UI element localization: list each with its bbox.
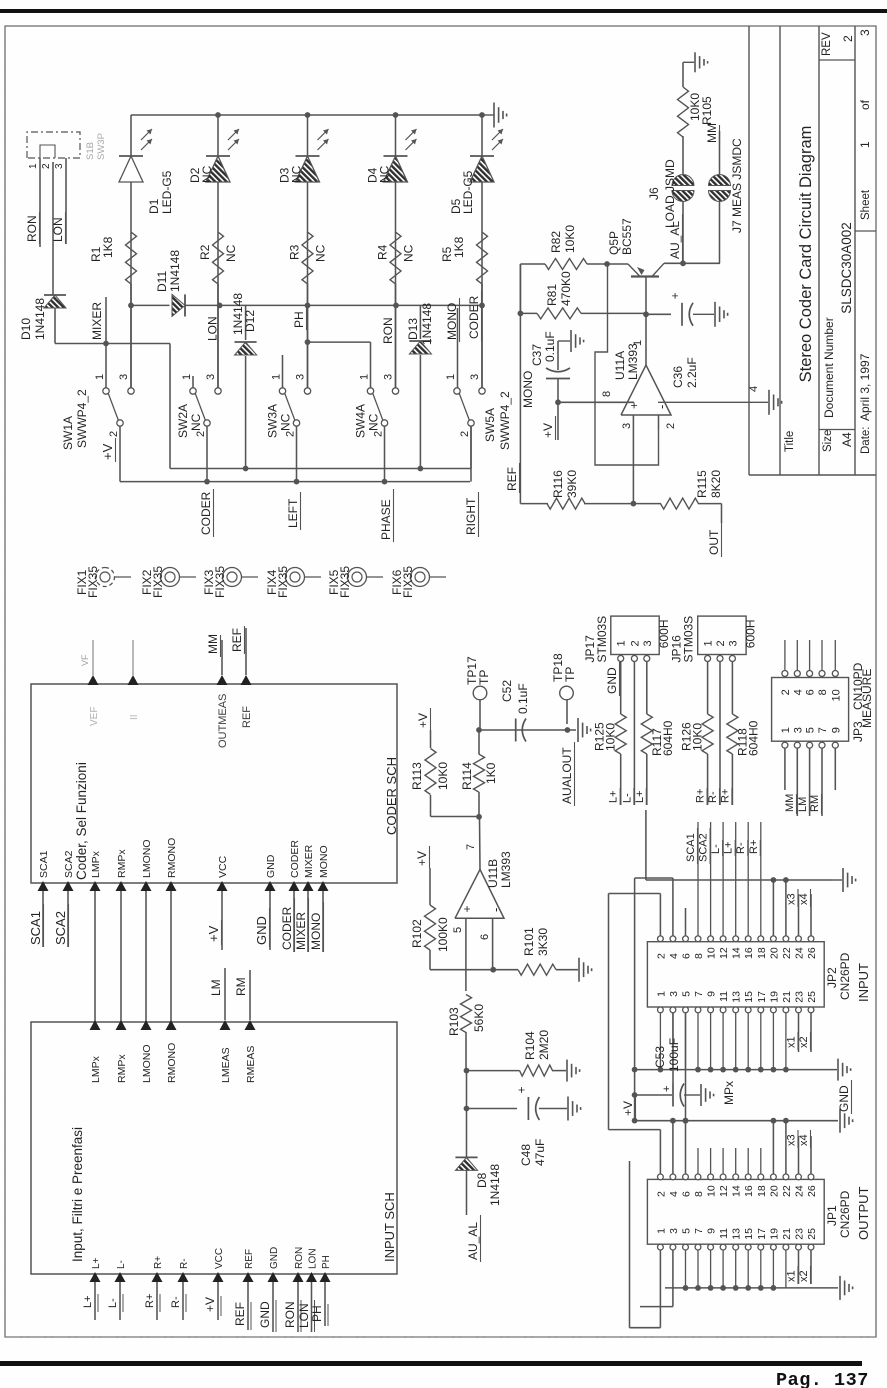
wire MIXER: [105, 297, 107, 388]
net label +V riser: [621, 1096, 636, 1118]
CODER SCH pin MONO: [318, 845, 331, 891]
label SW3A: [266, 404, 293, 438]
wire VCC stub: [221, 891, 223, 950]
svg-text:RMONO: RMONO: [166, 1043, 178, 1083]
svg-text:C36: C36: [671, 366, 685, 388]
svg-text:604H0: 604H0: [661, 720, 675, 756]
net label R+: [695, 788, 708, 805]
svg-text:NC: NC: [367, 413, 381, 431]
svg-text:LMEAS: LMEAS: [220, 1047, 232, 1083]
svg-text:Coder, Sel Funzioni: Coder, Sel Funzioni: [74, 762, 89, 880]
svg-text:6: 6: [681, 1191, 693, 1197]
svg-text:7: 7: [693, 991, 705, 997]
svg-text:1: 1: [858, 141, 872, 148]
resistor R117 604H0 on JP17 pin3: [641, 662, 652, 806]
label SW4A: [354, 404, 381, 438]
svg-text:R113: R113: [410, 762, 424, 790]
CODER SCH pin LMPx: [90, 850, 103, 891]
svg-text:2: 2: [629, 640, 641, 646]
R105 ground: [683, 52, 708, 72]
capacitor C37 0.1uF: [546, 341, 570, 402]
wire OUT: [721, 504, 723, 523]
svg-text:100K0: 100K0: [436, 917, 450, 952]
SW5A pin2 wire: [470, 426, 472, 481]
svg-text:2: 2: [195, 431, 207, 437]
JP1 pin 11: [718, 1228, 730, 1250]
net label L-: [621, 788, 634, 805]
svg-text:AU_AL: AU_AL: [466, 1222, 480, 1260]
op-amp U11B LM393: [455, 851, 513, 918]
label R114: [460, 762, 498, 790]
junction dots on LED rail: [215, 112, 485, 118]
svg-text:x1: x1: [786, 1270, 798, 1282]
junction dot pin6 node: [490, 967, 496, 973]
JP1 pin 5: [681, 1228, 693, 1250]
svg-text:SLSDC30A002: SLSDC30A002: [839, 222, 854, 314]
JP1 left bus: [665, 1250, 838, 1288]
svg-text:3: 3: [469, 374, 481, 380]
svg-text:RIGHT: RIGHT: [464, 497, 478, 535]
net label LM JP3: [797, 794, 810, 814]
INPUT SCH pin LMPx: [90, 1020, 103, 1083]
JP2 pin 12: [718, 936, 730, 959]
svg-text:2: 2: [285, 431, 297, 437]
INPUT SCH pin RMONO: [166, 1020, 179, 1083]
resistor R82 10K0: [520, 259, 607, 270]
svg-text:470K0: 470K0: [559, 271, 573, 306]
resistor R113 10K0: [425, 730, 436, 817]
label R115: [695, 470, 723, 498]
svg-text:17: 17: [756, 991, 768, 1003]
net label GND: [254, 908, 270, 947]
svg-text:LM393: LM393: [626, 343, 640, 380]
svg-text:4: 4: [748, 386, 760, 392]
+V dot for U11A pin8: [555, 399, 561, 405]
svg-text:FIX35: FIX35: [338, 566, 352, 598]
JP2 x1 x2 stubs: [799, 1013, 812, 1052]
svg-text:NC: NC: [279, 413, 293, 431]
svg-text:19: 19: [768, 1228, 780, 1240]
net label LON at J-box pin3: [51, 212, 66, 244]
JP2 bus ground: [833, 868, 856, 892]
JP1 pin 3: [668, 1228, 680, 1250]
wire RMEAS with RM label: [234, 970, 250, 1020]
net label RON on row4: [381, 317, 395, 344]
net label R+ JP2: [748, 840, 761, 856]
U11B pin6 wire: [479, 918, 493, 970]
JP2 pin 25: [806, 991, 818, 1013]
svg-text:REF: REF: [233, 1302, 247, 1326]
svg-text:SCA2: SCA2: [63, 850, 75, 878]
JP3 right wire 6: [809, 640, 811, 670]
svg-text:JP2: JP2: [825, 967, 839, 988]
net label R-: [707, 788, 720, 805]
svg-text:2: 2: [655, 1191, 667, 1197]
CODER SCH pin RMPx: [116, 849, 129, 891]
svg-text:VCC: VCC: [217, 855, 229, 878]
JP1 pin 21: [781, 1228, 793, 1250]
title block: schematic title: [797, 126, 815, 383]
SW3A pin numbers: [271, 374, 307, 437]
svg-text:NC: NC: [290, 165, 304, 183]
resistor R104 2M20: [467, 1065, 567, 1076]
junction dot R104 node: [464, 1068, 470, 1074]
svg-text:x3: x3: [786, 893, 798, 905]
CODER SCH pin CODER: [289, 840, 302, 891]
JP2 pin 22: [781, 936, 793, 959]
svg-text:GND: GND: [837, 1085, 851, 1112]
net label L+: [634, 788, 647, 805]
svg-text:3: 3: [668, 1228, 680, 1234]
JP1 right bus ground with GND label: [837, 1080, 853, 1133]
svg-text:FIX35: FIX35: [401, 566, 415, 598]
capacitor C52 0.1uF: [516, 719, 526, 742]
R113 left elbow: [431, 816, 480, 818]
net label GND JP17: [605, 662, 620, 696]
switch SW4A NC: [367, 388, 398, 426]
JP1 right bus: [635, 1120, 838, 1122]
JP2 pin 24: [794, 936, 806, 959]
svg-text:17: 17: [756, 1228, 768, 1240]
wire GND stub: [269, 891, 271, 950]
net label +V at switches: [100, 438, 116, 462]
svg-text:RON: RON: [381, 317, 395, 344]
svg-text:LED-G5: LED-G5: [160, 170, 174, 214]
svg-text:1: 1: [655, 1228, 667, 1234]
svg-text:R115: R115: [695, 470, 709, 498]
INPUT SCH pin L-: [115, 1260, 128, 1282]
svg-text:S1B: S1B: [85, 142, 96, 160]
CODER SCH pin SCA1: [38, 850, 51, 891]
svg-text:1K8: 1K8: [101, 236, 115, 258]
wire L- stub: [107, 1282, 123, 1320]
svg-text:1N4148: 1N4148: [33, 298, 47, 340]
svg-text:+V: +V: [415, 851, 429, 866]
J-box pin numbers: [28, 163, 65, 169]
resistor R105 10K0: [678, 62, 689, 137]
junction dots JP1 left bus: [683, 1285, 777, 1291]
svg-text:April 3, 1997: April 3, 1997: [858, 353, 872, 421]
svg-text:25: 25: [806, 991, 818, 1003]
svg-text:STM03S: STM03S: [595, 616, 609, 663]
JP1 pin 7: [693, 1228, 705, 1250]
svg-text:OUTMEAS: OUTMEAS: [217, 694, 229, 748]
svg-text:VCC: VCC: [214, 1248, 225, 1269]
SW4A pin numbers: [359, 374, 395, 437]
svg-text:TP: TP: [563, 667, 577, 682]
svg-text:+: +: [668, 292, 682, 299]
svg-text:SW5A: SW5A: [483, 408, 497, 442]
svg-text:R+: R+: [153, 1256, 164, 1269]
C53/MPx ground: [701, 1081, 736, 1106]
page top rule: [0, 9, 887, 13]
wire to C48: [466, 1071, 468, 1109]
test point TP18: [551, 653, 577, 724]
net label MM JP3: [784, 794, 797, 814]
svg-text:SW4A: SW4A: [354, 404, 368, 438]
svg-text:R104: R104: [523, 1031, 537, 1060]
label R2: [198, 244, 238, 262]
JP1 pin 18: [756, 1174, 768, 1197]
resistor R126 10K0 on JP16 pin1: [702, 662, 713, 806]
net label x3 JP1: [786, 1130, 799, 1148]
net label x1 JP1: [786, 1266, 799, 1284]
svg-text:C53: C53: [653, 1046, 667, 1068]
svg-text:+V: +V: [621, 1101, 635, 1116]
svg-text:x4: x4: [798, 893, 810, 905]
svg-text:-: -: [488, 908, 503, 912]
jumper J7 MEAS JSMDC: [709, 175, 731, 202]
wire D12 branch: [245, 305, 247, 468]
junction dot AU_AL: [680, 260, 686, 266]
CODER SCH pin LMONO: [141, 839, 154, 891]
svg-text:D10: D10: [19, 318, 33, 340]
svg-text:R+: R+: [144, 1294, 156, 1308]
svg-text:1: 1: [616, 640, 628, 646]
JP2 pin 11: [718, 991, 730, 1013]
label C37: [530, 331, 557, 366]
svg-text:604H0: 604H0: [746, 720, 760, 756]
U11A output pin1 wire: [632, 314, 646, 365]
svg-text:A4: A4: [840, 432, 854, 447]
svg-text:LM393: LM393: [499, 851, 513, 888]
svg-text:CODER: CODER: [289, 840, 301, 878]
svg-text:10K0: 10K0: [604, 723, 618, 751]
+V / LED rail vertical wire: [131, 114, 482, 116]
wire lineR top corner: [519, 264, 521, 313]
SW2A pin1 wire: [192, 376, 194, 388]
connector JP2 CN26PD: [647, 942, 871, 1007]
J-box pin wires: [40, 158, 66, 247]
svg-text:26: 26: [806, 947, 818, 959]
svg-text:LMPx: LMPx: [90, 1055, 102, 1083]
CODER SCH pin GND: [265, 854, 278, 891]
junction dots on +V riser: [632, 1067, 638, 1124]
svg-text:25: 25: [806, 1228, 818, 1240]
junction dot pin3 node: [631, 501, 637, 507]
svg-text:13: 13: [731, 1228, 743, 1240]
svg-text:8: 8: [693, 1191, 705, 1197]
switch SW5A SWWP4_2: [454, 388, 485, 426]
JP1 pin 4: [668, 1174, 680, 1197]
LED D2 NC: [206, 129, 239, 182]
svg-text:26: 26: [806, 1185, 818, 1197]
U11A pin4 wire+ground: [658, 386, 782, 415]
svg-text:OUTPUT: OUTPUT: [856, 1187, 871, 1241]
svg-text:GND: GND: [258, 1301, 272, 1328]
svg-text:R102: R102: [410, 919, 424, 948]
mounting hole FIX4 FIX35: [265, 566, 321, 598]
svg-text:20: 20: [768, 1185, 780, 1197]
svg-text:MONO: MONO: [318, 845, 330, 878]
JP1 pin 1: [655, 1228, 667, 1250]
net label x2 JP2: [798, 1032, 811, 1050]
inter-row wire (vertical): [131, 304, 482, 306]
svg-text:R101: R101: [522, 927, 536, 956]
svg-text:PH: PH: [321, 1255, 332, 1269]
junction dots JP2 bus: [771, 877, 789, 883]
diode D13 1N4148: [409, 341, 431, 354]
svg-text:SCA1: SCA1: [685, 833, 697, 862]
svg-text:SW1A: SW1A: [61, 416, 75, 450]
wire LON stub left: [297, 1282, 315, 1332]
JP2 pin 23: [794, 991, 806, 1013]
svg-text:R-: R-: [735, 842, 747, 854]
JP1 pin 6: [681, 1174, 693, 1197]
svg-text:10: 10: [830, 689, 842, 701]
svg-text:+V: +V: [203, 1297, 217, 1312]
resistor R116 39K0: [520, 498, 633, 509]
title block: REV: [821, 32, 855, 56]
wire RON stub left: [283, 1282, 301, 1332]
R104 ground: [567, 1060, 580, 1082]
svg-text:L-: L-: [621, 793, 633, 803]
resistor R5: [477, 232, 488, 284]
label R102: [410, 917, 450, 952]
svg-text:2M20: 2M20: [537, 1030, 551, 1060]
net label RM JP3: [809, 794, 822, 814]
svg-text:R+: R+: [695, 789, 707, 803]
svg-text:2: 2: [665, 423, 677, 429]
svg-text:2: 2: [715, 640, 727, 646]
wire row R4 to rail: [395, 115, 397, 388]
svg-text:R+: R+: [748, 840, 760, 854]
svg-text:24: 24: [794, 947, 806, 959]
svg-text:MPx: MPx: [722, 1081, 736, 1105]
net label MONO (analog): [521, 371, 535, 408]
net label SCA2: [53, 904, 69, 947]
svg-text:22: 22: [781, 947, 793, 959]
svg-text:SCA1: SCA1: [28, 911, 43, 945]
svg-text:R114: R114: [460, 762, 474, 790]
wire PH stub left: [310, 1282, 328, 1326]
resistor R81 470K0: [520, 308, 645, 319]
svg-text:R103: R103: [447, 1007, 461, 1036]
U11A pin8 wire: [558, 391, 634, 402]
svg-text:+: +: [514, 1086, 528, 1093]
wire RMPx between blocks: [120, 891, 122, 1022]
svg-text:LON: LON: [51, 217, 65, 242]
label D1: [147, 170, 174, 214]
net label SCA1: [28, 904, 44, 947]
svg-text:NC: NC: [314, 244, 328, 262]
svg-text:7: 7: [693, 1228, 705, 1234]
CODER SCH pin MM: [217, 675, 230, 748]
junction dots on lineB: [204, 479, 387, 485]
wire D10 cathode to J-box pin2: [52, 162, 54, 295]
JP2 pin 14: [731, 936, 743, 959]
svg-text:3K30: 3K30: [536, 928, 550, 956]
svg-text:1: 1: [94, 374, 106, 380]
svg-text:Stereo Coder Card Circuit Diag: Stereo Coder Card Circuit Diagram: [797, 126, 815, 383]
connector J-box: [27, 132, 80, 158]
svg-text:R+: R+: [719, 789, 731, 803]
svg-text:REV: REV: [821, 32, 833, 56]
svg-text:MIXER: MIXER: [303, 844, 315, 878]
routing wire C: [630, 1161, 661, 1328]
faint label VEF: [80, 654, 90, 666]
JP1 pin22 wire: [783, 1118, 789, 1174]
JP17 pin2 wire: [633, 662, 635, 806]
svg-text:7: 7: [817, 727, 829, 733]
SW5A pin2 connect to lineA: [470, 426, 472, 468]
net label REF: [230, 626, 245, 654]
label R3: [288, 244, 328, 262]
junction dot R82 bottom: [604, 261, 610, 267]
svg-text:+V: +V: [100, 443, 115, 460]
svg-text:D11: D11: [155, 271, 169, 292]
ground at LED rail: [482, 103, 507, 128]
JP2 pin 7: [693, 991, 705, 1013]
JP3 pin 2 (right): [780, 671, 792, 696]
junction dot TP17 node: [476, 727, 482, 733]
JP3 pin 9 (left): [830, 727, 842, 748]
net label L- JP2: [710, 840, 723, 856]
svg-text:4: 4: [668, 1191, 680, 1197]
C37 ground: [558, 330, 584, 352]
svg-text:L+: L+: [91, 1257, 102, 1269]
svg-text:8K20: 8K20: [709, 470, 723, 498]
wire VCC stub left: [203, 1282, 221, 1320]
svg-text:MONO: MONO: [521, 371, 535, 408]
JP2 pin4 elbow: [635, 878, 673, 936]
svg-text:R-: R-: [170, 1296, 182, 1308]
title block: Document Number label: [822, 317, 836, 418]
svg-text:1: 1: [655, 991, 667, 997]
title block: Title label: [784, 431, 796, 452]
wire row R5 to rail: [481, 115, 483, 388]
junction dot TP18 node: [565, 727, 571, 733]
svg-text:MM: MM: [705, 123, 719, 143]
label C48: [519, 1139, 547, 1166]
label SW1A: [61, 389, 89, 450]
svg-text:GND: GND: [269, 1247, 280, 1269]
svg-text:9: 9: [830, 727, 842, 733]
junction dot C48 node: [464, 1106, 470, 1112]
svg-text:3: 3: [727, 640, 739, 646]
INPUT SCH pin LMONO: [141, 1020, 154, 1083]
svg-text:L-: L-: [710, 844, 722, 854]
svg-text:RMEAS: RMEAS: [245, 1046, 257, 1083]
label C53: [653, 1038, 681, 1072]
net label L+ JP2: [723, 840, 736, 856]
wire row R3 to rail: [307, 115, 309, 388]
label D11: [155, 250, 182, 292]
label Q5P: [607, 218, 634, 255]
svg-text:U11B: U11B: [486, 859, 500, 888]
svg-text:9: 9: [706, 991, 718, 997]
label J6: [647, 159, 677, 228]
JP2 pin 16: [743, 936, 755, 959]
svg-text:10K0: 10K0: [563, 225, 577, 253]
JP2 signal wires right: [698, 822, 761, 936]
net label PH: [292, 308, 307, 330]
wire L+ stub: [82, 1282, 98, 1320]
SW1A pin2 wire to +V line: [119, 426, 121, 481]
svg-text:C52: C52: [500, 680, 514, 702]
switch SW2A NC: [190, 388, 221, 426]
net label +V at R113: [416, 708, 431, 730]
CODER SCH pin VCC: [217, 855, 230, 891]
JP3 right wire 10: [834, 640, 836, 670]
JP2 pin 3: [668, 991, 680, 1013]
svg-text:5: 5: [805, 727, 817, 733]
wire RMONO between blocks: [170, 891, 172, 1022]
wire LMPx between blocks: [94, 891, 96, 1022]
junction dot R114 left: [476, 814, 482, 820]
net label +V at R102: [415, 846, 430, 868]
svg-text:x2: x2: [798, 1036, 810, 1048]
